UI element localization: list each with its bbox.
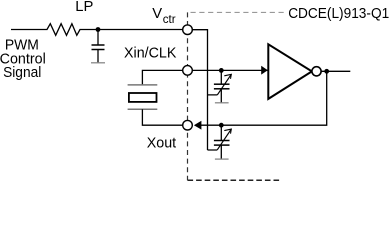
svg-text:ctr: ctr bbox=[163, 13, 176, 26]
svg-text:Xin/CLK: Xin/CLK bbox=[124, 46, 176, 62]
svg-text:Xout: Xout bbox=[147, 136, 176, 152]
svg-text:CDCE(L)913-Q1: CDCE(L)913-Q1 bbox=[288, 5, 389, 22]
svg-text:V: V bbox=[152, 6, 162, 22]
svg-text:LP: LP bbox=[75, 0, 93, 15]
svg-text:Signal: Signal bbox=[3, 65, 41, 81]
